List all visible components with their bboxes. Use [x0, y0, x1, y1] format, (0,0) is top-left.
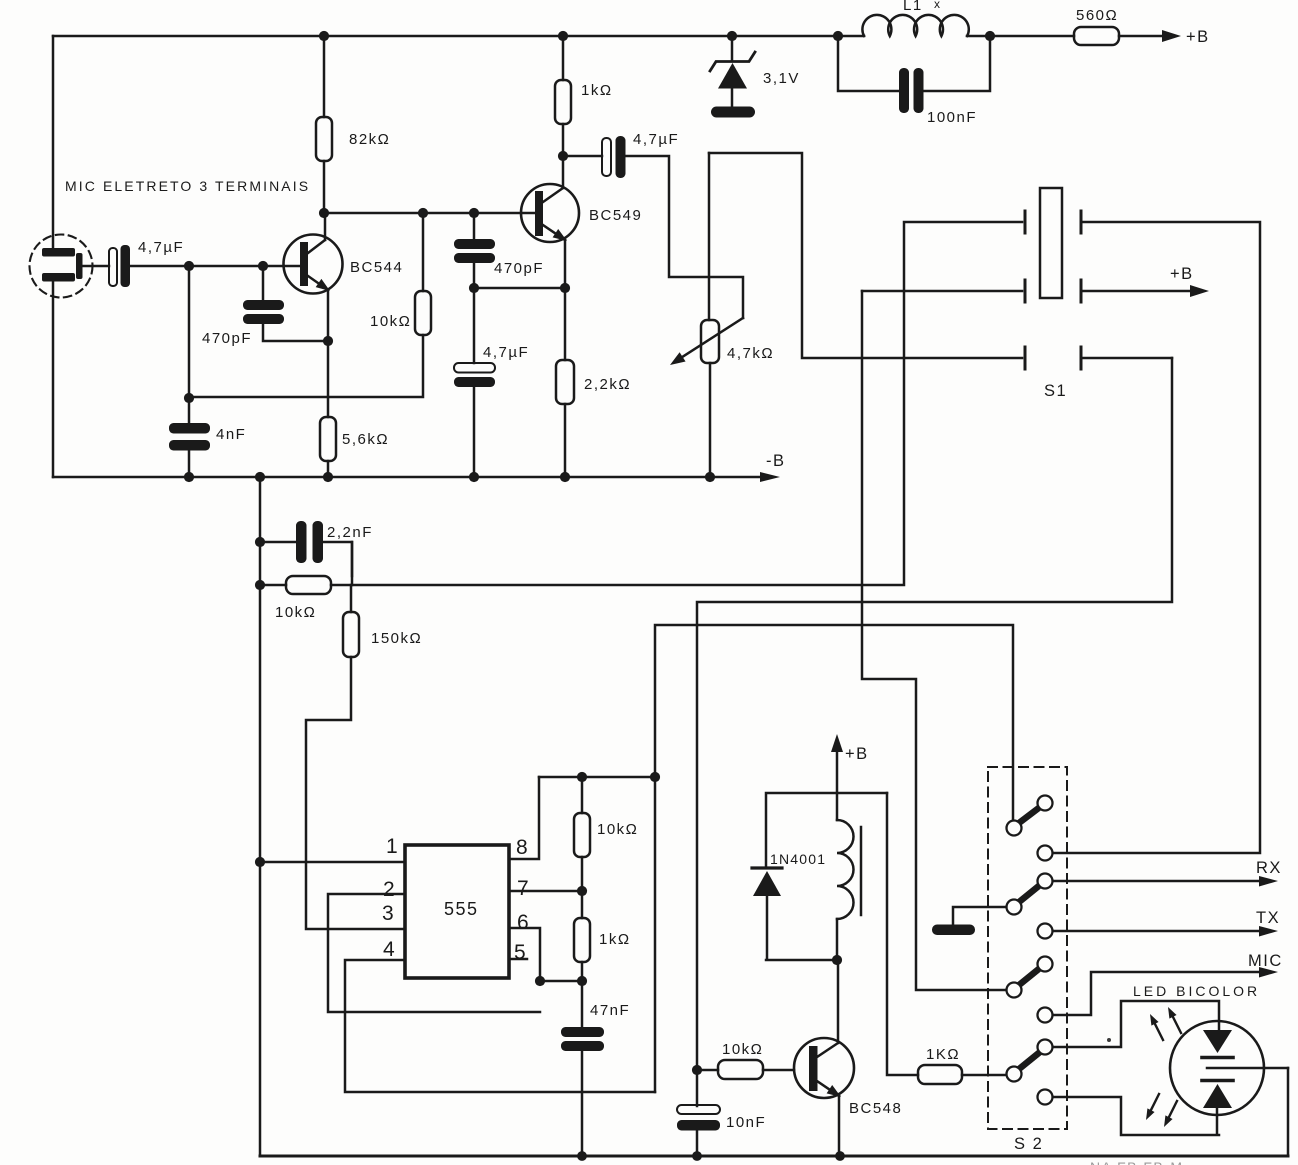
svg-text:47nF: 47nF: [590, 1002, 630, 1019]
wire S1 row3 right: [1083, 357, 1172, 360]
capacitor 4,7uF output: [563, 155, 602, 158]
pin 4: [345, 960, 655, 1092]
wire RX output: [1053, 880, 1259, 883]
pin 2: [328, 894, 540, 1012]
wire supply riser down to pin4 loop: [654, 777, 657, 1092]
svg-text:2: 2: [383, 878, 395, 901]
pin 6: [509, 928, 540, 981]
relay RL1 +B arrow: [836, 750, 839, 820]
S1 contact row3 right: [1080, 347, 1083, 369]
node pot rail: [705, 472, 715, 482]
wire left border from mic to -B rail: [52, 281, 55, 477]
S2 pole4 lower throw: [1038, 1090, 1053, 1105]
svg-text:1N4001: 1N4001: [770, 851, 826, 867]
wire C input to BC544 base: [130, 265, 300, 268]
wire 555 supply rail: [539, 776, 655, 779]
resistor 5,6k: [320, 417, 336, 461]
microphone MIC electret (dashed circle): [30, 235, 93, 298]
S1 contact row1 left: [1024, 211, 1027, 233]
svg-text:6: 6: [517, 911, 529, 934]
svg-text:3: 3: [382, 902, 394, 925]
pin 8: [509, 777, 539, 859]
node 4nF rail: [184, 472, 194, 482]
svg-text:10kΩ: 10kΩ: [275, 604, 316, 621]
capacitor 470pF (BC549 base): [474, 213, 565, 288]
switch S2 dashed enclosure: [988, 767, 1067, 1129]
wire top +B rail: [53, 35, 1074, 38]
node 1k collector: [558, 151, 568, 161]
IC U1 555 timer: [405, 845, 509, 978]
svg-text:BC544: BC544: [350, 259, 403, 276]
wire 4nF to -B rail: [188, 450, 191, 477]
S2 pole3 lower throw: [1038, 1008, 1053, 1023]
svg-text:10nF: 10nF: [726, 1114, 766, 1131]
node rail inductor left: [833, 31, 843, 41]
svg-text:82kΩ: 82kΩ: [349, 131, 390, 148]
node 470pF top: [469, 208, 479, 218]
resistor 1k (555 timing): [581, 891, 584, 981]
svg-text:5: 5: [514, 941, 526, 964]
transistor Q3 BC548: [794, 960, 902, 1117]
node 1k bottom: [577, 976, 587, 986]
resistor 82k: [323, 36, 326, 213]
wire S1 row2 left: [862, 290, 1022, 293]
S2 pole1 blade: [1019, 807, 1040, 823]
LED arrow top a: [1153, 1020, 1163, 1040]
S2 pole3 moving contact: [1007, 983, 1022, 998]
S1 contact row2 right: [1080, 280, 1083, 302]
svg-text:1kΩ: 1kΩ: [599, 931, 631, 948]
resistor 1k (BC549 collector): [562, 36, 565, 156]
svg-text:-B: -B: [766, 452, 786, 470]
node rail 1k: [558, 31, 568, 41]
wire BC548 emitter to rail: [838, 1096, 841, 1156]
wire -B rail: [53, 476, 760, 479]
svg-text:L1: L1: [903, 0, 923, 14]
S1 contact row3 left: [1024, 347, 1027, 369]
transistor Q1 BC544: [284, 213, 404, 295]
resistor 560 ohm: [1074, 27, 1119, 45]
resistor 10k (555 input): [260, 584, 286, 587]
capacitor 470pF (BC544 base): [262, 266, 265, 300]
capacitor 2,2nF: [260, 542, 352, 576]
node rail 47nF: [577, 1151, 587, 1161]
svg-text:BC548: BC548: [849, 1100, 902, 1117]
zener diode 3,1V: [731, 36, 734, 61]
node 4,7uF rail: [469, 472, 479, 482]
capacitor 4,7uF (BC549 emitter): [473, 288, 476, 477]
capacitor 100nF (parallel with L1): [838, 36, 990, 91]
S2 pole1 upper throw: [1038, 796, 1053, 811]
node 10k top: [577, 772, 587, 782]
resistor 1K (LED drive): [918, 1065, 962, 1084]
wire 560 to +B: [1119, 35, 1162, 38]
svg-text:1KΩ: 1KΩ: [926, 1046, 960, 1063]
svg-text:100nF: 100nF: [927, 109, 977, 126]
wire relay node to 1K: [887, 793, 918, 1075]
wire 470pF to emitter node: [263, 324, 328, 341]
diode 1N4001: [766, 793, 887, 868]
wire node A down to 4nF: [188, 266, 191, 423]
pin 7: [509, 890, 582, 893]
S2 pole2 lower throw: [1038, 924, 1053, 939]
S2 pole2 moving contact: [1007, 900, 1022, 915]
svg-text:NA FB FB-M: NA FB FB-M: [1090, 1159, 1184, 1165]
node 5,6k rail: [323, 472, 333, 482]
wire supply riser to S2 pole1: [655, 625, 1013, 820]
node 2,2nF branch: [255, 537, 265, 547]
svg-text:+B: +B: [1170, 265, 1194, 283]
S2 pole4 upper throw: [1038, 1040, 1053, 1055]
wire left vertical bus x260: [259, 477, 262, 1156]
S2 pole2 upper throw: [1038, 874, 1053, 889]
LED arrow bottom a: [1149, 1094, 1159, 1114]
potentiometer 4,7k: [709, 153, 710, 477]
node rail BC548 emitter: [835, 1151, 845, 1161]
svg-text:TX: TX: [1256, 909, 1280, 927]
wire S2 pole4 upper to LED top: [1053, 1001, 1219, 1047]
node +B arrow top: [1162, 30, 1181, 42]
node speck: [1107, 1038, 1111, 1042]
node supply x655: [650, 772, 660, 782]
resistor 10k (555 timing): [581, 777, 584, 891]
svg-text:x: x: [934, 0, 940, 11]
node -B arrow: [760, 472, 780, 482]
wire 10k to S1 row1: [331, 222, 1022, 585]
node base 10k 10nF: [692, 1065, 702, 1075]
S1 contact row1 right: [1080, 211, 1083, 233]
resistor 150k: [306, 585, 405, 929]
node rail 10nF: [692, 1151, 702, 1161]
pin 1: [260, 861, 405, 864]
svg-text:3,1V: 3,1V: [763, 70, 800, 87]
relay contacts S1 actuator bar: [1040, 188, 1062, 298]
svg-text:4nF: 4nF: [216, 426, 246, 443]
svg-text:10kΩ: 10kΩ: [370, 313, 411, 330]
node collector 82k: [319, 208, 329, 218]
wire S1 row2 left to S2 pole3: [862, 291, 1006, 990]
wire 1K to S2 pole4: [962, 1074, 1006, 1077]
wire TX output: [1053, 930, 1259, 933]
svg-text:LED BICOLOR: LED BICOLOR: [1133, 983, 1260, 999]
svg-text:S 2: S 2: [1014, 1135, 1043, 1153]
ground (S2): [932, 925, 975, 936]
wire rect node from y153 to S1 row3: [709, 153, 1022, 358]
node 10k feedback: [184, 393, 194, 403]
svg-text:150kΩ: 150kΩ: [371, 630, 422, 647]
LED arrow top b: [1171, 1013, 1181, 1033]
wire left border from +B rail to mic: [52, 36, 55, 248]
capacitor 4nF: [169, 423, 210, 434]
svg-text:4,7µF: 4,7µF: [633, 131, 679, 148]
S2 pole1 lower throw: [1038, 846, 1053, 861]
wire LED common to ground rail: [1287, 1068, 1290, 1156]
svg-text:560Ω: 560Ω: [1076, 7, 1118, 24]
node BC549 emitter junction: [560, 283, 570, 293]
node input B: [258, 261, 268, 271]
svg-text:4,7kΩ: 4,7kΩ: [727, 345, 774, 362]
svg-text:7: 7: [517, 877, 529, 900]
wire output cap to pot wiper: [626, 156, 744, 318]
node rail inductor right: [985, 31, 995, 41]
S1 contact row2 left: [1024, 280, 1027, 302]
resistor 10k (BC548 base): [697, 1069, 794, 1072]
node coil diode collector: [832, 955, 842, 965]
wire mic to C input: [82, 265, 109, 268]
capacitor 47nF: [581, 981, 584, 1156]
svg-text:BC549: BC549: [589, 207, 642, 224]
S2 pole3 blade: [1019, 968, 1040, 985]
wire S2 pole2 to ground: [953, 907, 1006, 925]
node 2,2k rail: [560, 472, 570, 482]
S2 pole4 moving contact: [1007, 1067, 1022, 1082]
capacitor 10nF: [696, 1070, 699, 1156]
wire BC549 emitter down: [564, 240, 567, 477]
svg-text:8: 8: [516, 836, 528, 859]
svg-text:MIC: MIC: [1248, 952, 1283, 970]
wire BC544 collector node to BC549 base: [324, 212, 536, 215]
svg-text:5,6kΩ: 5,6kΩ: [342, 431, 389, 448]
wire pin6 junction: [540, 980, 582, 983]
wire bottom ground rail: [260, 1155, 1288, 1158]
svg-text:10kΩ: 10kΩ: [597, 821, 638, 838]
S2 pole1 moving contact: [1007, 821, 1022, 836]
relay coil: [837, 820, 854, 919]
svg-text:4: 4: [383, 938, 395, 961]
node rail zener: [727, 31, 737, 41]
svg-text:MIC ELETRETO 3 TERMINAIS: MIC ELETRETO 3 TERMINAIS: [65, 178, 310, 194]
S2 pole4 blade: [1019, 1052, 1040, 1069]
pin 5 stub: [509, 958, 527, 961]
svg-text:1: 1: [386, 835, 398, 858]
node 10k branch: [255, 580, 265, 590]
resistor 2,2k: [556, 360, 574, 404]
svg-text:1kΩ: 1kΩ: [581, 82, 613, 99]
S2 pole3 upper throw: [1038, 957, 1053, 972]
LED bicolor D2: [1133, 983, 1288, 1115]
wire S1 row2 to +B arrow: [1083, 290, 1190, 293]
svg-text:+B: +B: [1186, 28, 1210, 46]
S2 pole2 blade: [1019, 885, 1040, 902]
wire S2 pole4 lower to LED bottom: [1053, 1097, 1219, 1135]
wire S1 row3 right to BC548 base node: [697, 358, 1172, 1070]
node pin6 x540: [535, 976, 545, 986]
svg-text:4,7µF: 4,7µF: [138, 239, 184, 256]
svg-text:4,7µF: 4,7µF: [483, 344, 529, 361]
node input A: [184, 261, 194, 271]
svg-text:2,2nF: 2,2nF: [327, 524, 373, 541]
svg-text:RX: RX: [1256, 859, 1282, 877]
LED arrow bottom b: [1167, 1101, 1177, 1121]
node pin7 junction: [577, 886, 587, 896]
wire S1 row1 right to S2 pole1 lower: [1053, 222, 1260, 853]
wire MIC output: [1053, 972, 1259, 1015]
svg-text:470pF: 470pF: [494, 260, 544, 277]
wire BC544 emitter down: [327, 290, 330, 477]
node emitter 470pF: [323, 336, 333, 346]
svg-text:10kΩ: 10kΩ: [722, 1041, 763, 1058]
transistor Q2 BC549: [521, 156, 642, 245]
svg-text:S1: S1: [1044, 382, 1067, 400]
node rail 82k: [319, 31, 329, 41]
node 470pF-2 bottom: [469, 283, 479, 293]
inductor L1: [862, 15, 968, 36]
capacitor C 4,7uF input: [109, 248, 117, 286]
svg-text:555: 555: [444, 899, 479, 919]
node rail x260: [255, 472, 265, 482]
node 10k top: [418, 208, 428, 218]
svg-text:470pF: 470pF: [202, 330, 252, 347]
svg-text:2,2kΩ: 2,2kΩ: [584, 376, 631, 393]
resistor 10k (BC544): [189, 213, 423, 397]
svg-text:+B: +B: [845, 745, 869, 763]
